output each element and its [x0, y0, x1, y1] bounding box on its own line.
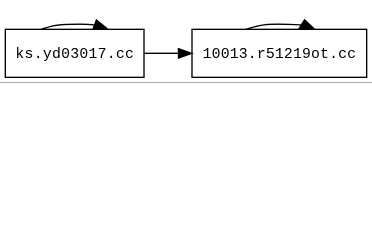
node ks.yd03017.cc (box)	[5, 29, 144, 77]
self-loop edge ks.yd03017.cc -> ks.yd03017.cc (spline)	[41, 24, 95, 29]
node 10013.r51219ot.cc (box)	[192, 29, 367, 77]
arrowhead of connecting edge	[178, 49, 191, 58]
arrowhead of left self-loop	[93, 20, 107, 29]
svg-text:10013.r51219ot.cc: 10013.r51219ot.cc	[203, 47, 356, 63]
digraph: two domain nodes, each with a flat self-loop, connected left to right	[0, 0, 372, 83]
arrowhead of right self-loop	[299, 20, 314, 29]
self-loop edge 10013.r51219ot.cc -> 10013.r51219ot.cc (spline)	[246, 24, 302, 29]
svg-text:ks.yd03017.cc: ks.yd03017.cc	[15, 47, 134, 63]
gray separator line at the bottom edge	[0, 82, 372, 83]
edge ks.yd03017.cc -> 10013.r51219ot.cc (shaft)	[144, 52, 178, 54]
